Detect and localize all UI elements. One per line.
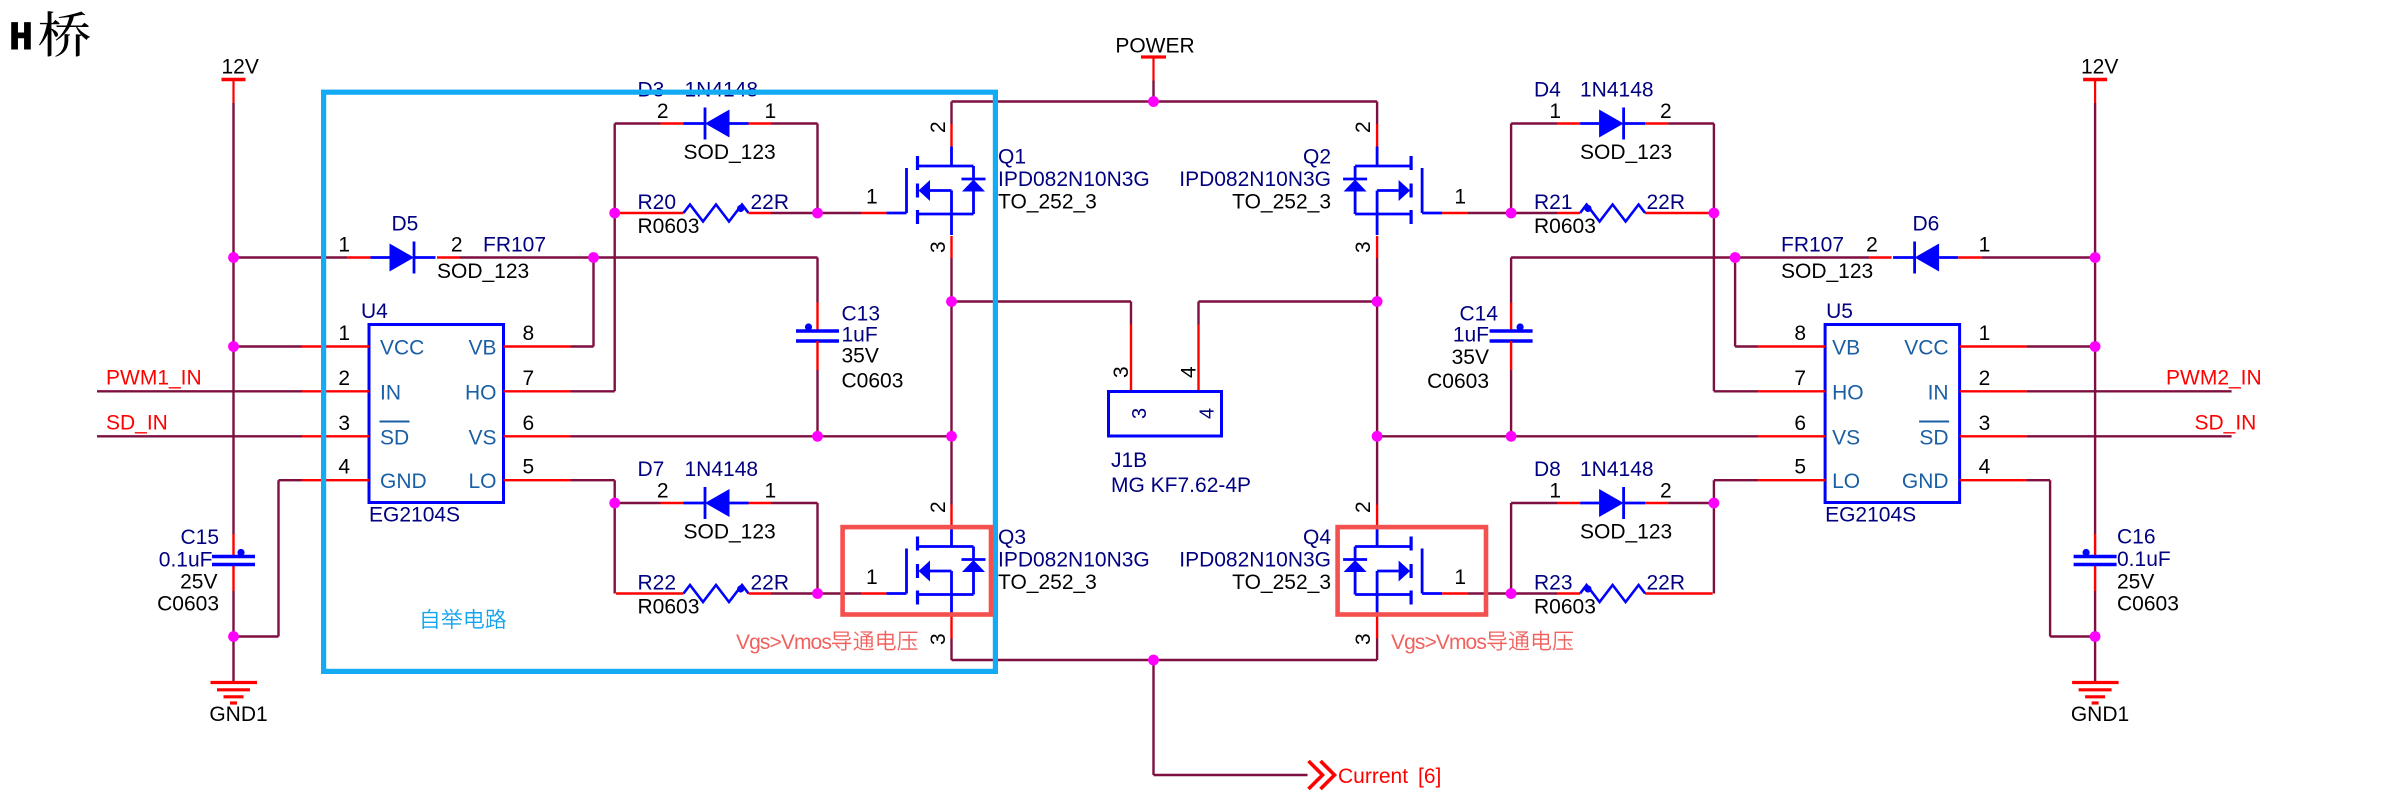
junction [812, 208, 823, 219]
svg-text:0.1uF: 0.1uF [2117, 548, 2171, 571]
wire C16 bottom to GND junction right [2094, 591, 2096, 637]
svg-text:U5: U5 [1826, 300, 1853, 323]
wire U5 LO down to low gate node [1714, 479, 1758, 481]
svg-text:1: 1 [765, 480, 777, 503]
junction [1709, 498, 1720, 509]
wire SD_IN left [97, 435, 302, 437]
ground GND1 left [211, 681, 258, 684]
wire D4 row right corner [1668, 122, 1714, 124]
svg-text:D6: D6 [1913, 213, 1940, 236]
svg-text:SD: SD [380, 426, 409, 449]
svg-text:1: 1 [1454, 566, 1466, 589]
wire current drop [1152, 660, 1154, 775]
svg-text:1: 1 [338, 322, 350, 345]
svg-text:R23: R23 [1534, 572, 1573, 595]
svg-text:SOD_123: SOD_123 [1580, 141, 1672, 164]
wire Q3 source down [950, 617, 952, 639]
junction [609, 208, 620, 219]
svg-text:3: 3 [1129, 408, 1151, 419]
svg-text:VCC: VCC [1904, 337, 1948, 360]
svg-text:SOD_123: SOD_123 [1781, 260, 1873, 283]
svg-text:HO: HO [465, 381, 497, 404]
svg-text:8: 8 [523, 322, 535, 345]
wire U5 VS row [1377, 435, 1758, 437]
svg-text:Q1: Q1 [998, 146, 1026, 169]
junction [2090, 252, 2101, 263]
svg-text:1: 1 [1549, 100, 1561, 123]
highlight box Q4 [1338, 527, 1486, 614]
wire D3 right to R20 junction [816, 124, 818, 214]
power symbol POWER [1141, 55, 1166, 58]
junction [946, 431, 957, 442]
svg-text:IPD082N10N3G: IPD082N10N3G [998, 549, 1150, 572]
svg-text:35V: 35V [1452, 346, 1489, 369]
junction [1506, 588, 1517, 599]
svg-text:IPD082N10N3G: IPD082N10N3G [1179, 549, 1331, 572]
svg-text:2: 2 [657, 480, 669, 503]
svg-text:1: 1 [1454, 186, 1466, 209]
pin 8 U5 VB [1758, 345, 1825, 347]
power symbol 12V right [2083, 78, 2107, 81]
pin 6 U4 VS [504, 435, 571, 437]
svg-text:IN: IN [1928, 381, 1949, 404]
svg-text:3: 3 [1352, 633, 1375, 645]
pin 8 U4 VB [504, 345, 571, 347]
wire POWER drop [1152, 81, 1154, 102]
wire R23 junction to Q4 gate [1468, 592, 1512, 594]
wire VCC row right [2027, 345, 2096, 347]
wire C13 bottom to VS [816, 341, 818, 370]
svg-text:Q4: Q4 [1303, 526, 1331, 549]
wire R22 junction to Q3 gate [818, 592, 862, 594]
svg-text:SOD_123: SOD_123 [684, 141, 776, 164]
wire D7 right down to R22 junction [816, 503, 818, 594]
svg-text:IPD082N10N3G: IPD082N10N3G [1179, 168, 1331, 191]
junction [946, 296, 957, 307]
svg-text:EG2104S: EG2104S [369, 504, 460, 527]
pin 7 U5 HO [1758, 390, 1825, 392]
svg-text:22R: 22R [1647, 572, 1686, 595]
wire LO node to D7 [615, 502, 661, 504]
wire FR107 node down to C14 [1510, 258, 1512, 303]
transistor Q1 nmos [887, 212, 907, 215]
wire VCC row left [234, 345, 303, 347]
svg-text:LO: LO [468, 470, 496, 493]
svg-text:C13: C13 [842, 303, 881, 326]
wire U4 GND to ground net [279, 479, 303, 481]
svg-text:3: 3 [1110, 366, 1133, 378]
svg-text:4: 4 [1979, 456, 1991, 479]
svg-text:1: 1 [338, 234, 350, 257]
svg-text:3: 3 [927, 241, 950, 253]
diode D7 1N4148 [661, 502, 684, 504]
svg-text:C16: C16 [2117, 526, 2156, 549]
wire Q4 drain pin [1376, 436, 1378, 504]
svg-text:0.1uF: 0.1uF [159, 549, 213, 572]
svg-text:GND: GND [380, 470, 427, 493]
diode D4 1N4148 [1645, 122, 1668, 124]
svg-text:VS: VS [1832, 426, 1860, 449]
wire Q1 source down [950, 236, 952, 258]
svg-text:1N4148: 1N4148 [1580, 458, 1654, 481]
junction [228, 341, 239, 352]
svg-text:MG KF7.62-4P: MG KF7.62-4P [1111, 474, 1251, 497]
svg-text:VB: VB [1832, 337, 1860, 360]
svg-text:VB: VB [468, 337, 496, 360]
svg-text:POWER: POWER [1115, 35, 1194, 58]
svg-text:7: 7 [1794, 367, 1806, 390]
resistor R21 [1645, 212, 1713, 214]
junction [609, 498, 620, 509]
svg-text:H: H [9, 17, 33, 62]
wire POWER bus [952, 100, 1378, 102]
resistor R22 [616, 592, 684, 594]
svg-text:3: 3 [1979, 412, 1991, 435]
svg-text:SOD_123: SOD_123 [437, 260, 529, 283]
svg-text:J1B: J1B [1111, 449, 1147, 472]
wire Q3 drain pin [950, 436, 952, 504]
svg-text:Current: Current [1338, 765, 1408, 788]
svg-text:U4: U4 [361, 300, 388, 323]
junction [1506, 208, 1517, 219]
svg-text:2: 2 [1352, 501, 1375, 513]
svg-text:2: 2 [1866, 234, 1878, 257]
svg-text:GND1: GND1 [209, 703, 267, 726]
wire Q1 drain pin [950, 102, 952, 125]
annotation 自举电路 [422, 609, 437, 629]
svg-text:5: 5 [523, 456, 535, 479]
svg-text:1: 1 [1549, 480, 1561, 503]
pin 2 U5 IN [1960, 390, 2027, 392]
svg-text:2: 2 [1979, 367, 1991, 390]
svg-text:IPD082N10N3G: IPD082N10N3G [998, 168, 1150, 191]
svg-text:1: 1 [866, 566, 878, 589]
svg-text:R22: R22 [638, 572, 677, 595]
pin 3 U5 SD [1960, 435, 2027, 437]
pin 5 U5 LO [1758, 479, 1825, 481]
svg-text:6: 6 [523, 412, 535, 435]
wire U5 HO to gate node vertical [1714, 390, 1758, 392]
title 桥 [39, 11, 90, 57]
op-amp U5 gate driver box [1825, 325, 1960, 503]
svg-text:R0603: R0603 [638, 596, 700, 619]
svg-text:SD_IN: SD_IN [2195, 412, 2257, 435]
svg-text:R0603: R0603 [1534, 596, 1596, 619]
net port Current chevron [1309, 761, 1323, 789]
pin 3 U4 SD [302, 435, 369, 437]
svg-text:1: 1 [866, 186, 878, 209]
svg-text:C0603: C0603 [2117, 593, 2179, 616]
wire U4 LO down to low gate node [571, 479, 615, 481]
wire PWM2_IN [2027, 390, 2232, 392]
svg-text:PWM2_IN: PWM2_IN [2166, 367, 2262, 390]
wire U5 GND to ground net [2027, 479, 2051, 481]
pin 1 U4 VCC [302, 345, 369, 347]
junction [2090, 631, 2101, 642]
svg-text:4: 4 [1178, 366, 1201, 378]
svg-text:2: 2 [451, 234, 463, 257]
junction [1730, 252, 1741, 263]
op-amp U4 gate driver box [369, 325, 504, 503]
svg-text:Vgs>Vmos: Vgs>Vmos [1391, 631, 1486, 654]
capacitor C15 [232, 534, 234, 557]
svg-text:12V: 12V [222, 56, 259, 79]
wire D8 left down to R23 junction [1510, 503, 1512, 594]
svg-text:25V: 25V [2117, 571, 2154, 594]
junction [812, 431, 823, 442]
wire Q4 source down [1376, 617, 1378, 639]
svg-text:Q2: Q2 [1303, 146, 1331, 169]
pin 7 U4 HO [504, 390, 571, 392]
svg-text:C0603: C0603 [842, 370, 904, 393]
svg-text:SD_IN: SD_IN [106, 412, 168, 435]
svg-text:[6]: [6] [1418, 765, 1441, 788]
diode D8 1N4148 [1645, 502, 1668, 504]
svg-text:TO_252_3: TO_252_3 [998, 191, 1097, 214]
svg-text:D7: D7 [638, 458, 665, 481]
junction [228, 252, 239, 263]
svg-text:HO: HO [1832, 381, 1864, 404]
connector J1B [1109, 392, 1222, 437]
svg-text:TO_252_3: TO_252_3 [1232, 571, 1331, 594]
transistor Q4 nmos [1422, 592, 1442, 595]
svg-text:PWM1_IN: PWM1_IN [106, 367, 202, 390]
junction [1372, 296, 1383, 307]
svg-text:2: 2 [1660, 100, 1672, 123]
svg-text:Q3: Q3 [998, 526, 1026, 549]
resistor R23 [1645, 592, 1713, 594]
wire C15 bottom to GND junction [232, 591, 234, 637]
svg-text:R21: R21 [1534, 191, 1573, 214]
svg-text:22R: 22R [1647, 191, 1686, 214]
svg-text:2: 2 [1660, 480, 1672, 503]
transistor Q2 nmos [1422, 212, 1442, 215]
svg-text:FR107: FR107 [1781, 234, 1844, 257]
pin 4 U5 GND [1960, 479, 2027, 481]
highlight box bootstrap [324, 92, 996, 671]
wire U4 VB up to bootstrap node [571, 345, 594, 347]
pin 6 U5 VS [1758, 435, 1825, 437]
junction [812, 588, 823, 599]
junction [228, 631, 239, 642]
svg-text:SOD_123: SOD_123 [684, 521, 776, 544]
svg-text:7: 7 [523, 367, 535, 390]
wire phase A to J1B pin3 [952, 300, 1132, 302]
svg-text:4: 4 [1197, 408, 1219, 419]
svg-text:FR107: FR107 [483, 234, 546, 257]
svg-text:2: 2 [927, 501, 950, 513]
svg-text:TO_252_3: TO_252_3 [1232, 191, 1331, 214]
junction [2090, 341, 2101, 352]
svg-text:GND: GND [1902, 470, 1949, 493]
svg-text:8: 8 [1794, 322, 1806, 345]
svg-text:IN: IN [380, 381, 401, 404]
highlight box Q3 [843, 527, 991, 614]
junction [588, 252, 599, 263]
svg-text:25V: 25V [180, 571, 217, 594]
capacitor C14 [1490, 329, 1533, 332]
svg-text:TO_252_3: TO_252_3 [998, 571, 1097, 594]
power symbol 12V left [222, 78, 246, 81]
wire PWM1_IN [97, 390, 302, 392]
svg-text:3: 3 [338, 412, 350, 435]
svg-text:3: 3 [1352, 241, 1375, 253]
svg-text:22R: 22R [751, 572, 790, 595]
svg-text:1uF: 1uF [1453, 324, 1489, 347]
ground GND1 right [2072, 681, 2119, 684]
wire U5 VB up to bootstrap node [1735, 345, 1758, 347]
svg-text:2: 2 [927, 121, 950, 133]
svg-text:2: 2 [1352, 121, 1375, 133]
svg-text:R20: R20 [638, 191, 677, 214]
wire R21 junction to Q2 gate [1468, 212, 1512, 214]
svg-text:22R: 22R [751, 191, 790, 214]
svg-text:2: 2 [338, 367, 350, 390]
wire D3 row left corner [615, 122, 661, 124]
junction [1709, 208, 1720, 219]
svg-text:C0603: C0603 [1427, 370, 1489, 393]
wire 12V left rail [232, 103, 234, 534]
pin 1 U5 VCC [1960, 345, 2027, 347]
junction [1148, 96, 1159, 107]
svg-text:C0603: C0603 [157, 593, 219, 616]
svg-text:LO: LO [1832, 470, 1860, 493]
wire GND junction to ground right [2094, 637, 2096, 683]
svg-text:35V: 35V [842, 345, 879, 368]
svg-text:VCC: VCC [380, 337, 424, 360]
capacitor C13 [796, 329, 839, 332]
wire Q2 drain pin [1376, 102, 1378, 125]
wire bottom bus [952, 659, 1378, 661]
wire LO node to D8 [1668, 502, 1714, 504]
svg-text:EG2104S: EG2104S [1825, 504, 1916, 527]
transistor Q3 nmos [887, 592, 907, 595]
pin 2 U4 IN [302, 390, 369, 392]
wire U4 HO to gate node vertical [571, 390, 615, 392]
svg-text:C14: C14 [1459, 303, 1498, 326]
wire FR107 node down to C13 [816, 258, 818, 303]
svg-text:1: 1 [1979, 234, 1991, 257]
wire C14 bottom to VS right [1510, 341, 1512, 370]
svg-text:R0603: R0603 [638, 215, 700, 238]
junction [1506, 431, 1517, 442]
svg-text:1N4148: 1N4148 [1580, 79, 1654, 102]
wire SD_IN right [2027, 435, 2232, 437]
wire GND junction to ground [232, 637, 234, 683]
capacitor C16 [2094, 534, 2096, 557]
svg-text:Vgs>Vmos: Vgs>Vmos [736, 631, 831, 654]
svg-text:12V: 12V [2081, 56, 2118, 79]
svg-text:D4: D4 [1534, 79, 1561, 102]
wire Q2 source down [1376, 236, 1378, 258]
svg-text:6: 6 [1794, 412, 1806, 435]
diode D5 FR107 [234, 256, 348, 258]
pin 5 U4 LO [504, 479, 571, 481]
svg-text:SOD_123: SOD_123 [1580, 521, 1672, 544]
svg-text:C15: C15 [180, 526, 219, 549]
wire D4 left to R21 junction [1510, 124, 1512, 214]
junction [1148, 655, 1159, 666]
pin 4 U4 GND [302, 479, 369, 481]
svg-text:1N4148: 1N4148 [685, 458, 759, 481]
svg-text:5: 5 [1794, 456, 1806, 479]
wire 12V right rail [2094, 103, 2096, 534]
wire U4 VS row [571, 435, 952, 437]
svg-text:VS: VS [468, 426, 496, 449]
diode D3 1N4148 [661, 122, 684, 124]
svg-text:1uF: 1uF [842, 324, 878, 347]
svg-text:3: 3 [927, 633, 950, 645]
svg-text:D5: D5 [392, 213, 419, 236]
junction [1372, 431, 1383, 442]
resistor R20 [616, 212, 684, 214]
svg-text:R0603: R0603 [1534, 215, 1596, 238]
svg-text:D8: D8 [1534, 458, 1561, 481]
svg-text:4: 4 [338, 456, 350, 479]
svg-text:1: 1 [1979, 322, 1991, 345]
wire phase B to J1B pin4 [1199, 300, 1378, 302]
wire R20 junction to Q1 gate [818, 212, 862, 214]
svg-text:1: 1 [765, 100, 777, 123]
diode D6 FR107 [1982, 256, 2096, 258]
svg-text:2: 2 [657, 100, 669, 123]
svg-text:SD: SD [1919, 426, 1948, 449]
svg-text:GND1: GND1 [2071, 703, 2129, 726]
